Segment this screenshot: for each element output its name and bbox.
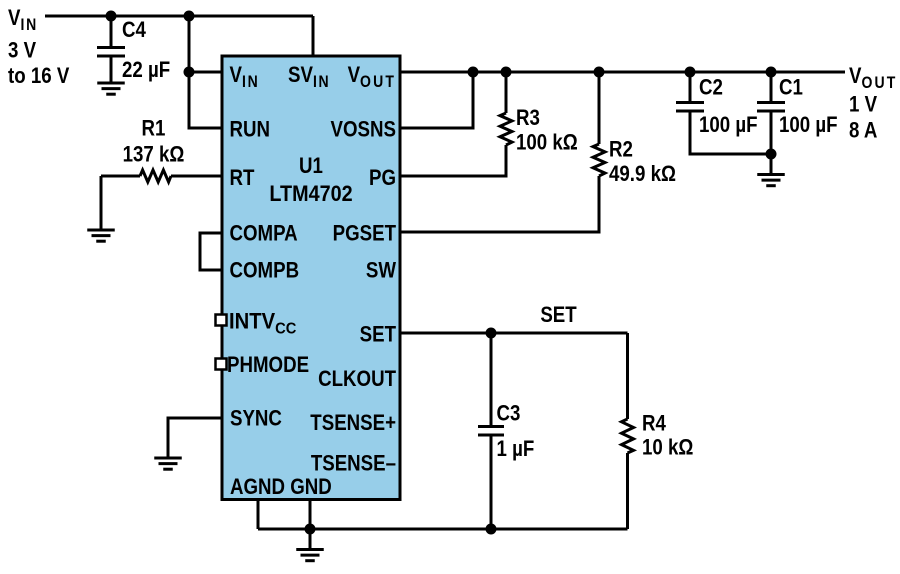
svg-text:R3: R3: [516, 107, 540, 131]
svg-text:SW: SW: [366, 259, 397, 283]
svg-text:10 kΩ: 10 kΩ: [642, 436, 693, 460]
wire: COMPA-COMPB loop: [200, 233, 222, 270]
resistor R4: [622, 333, 634, 529]
capacitor C4: [97, 16, 125, 83]
svg-text:COMPA: COMPA: [230, 222, 298, 246]
node: junction R2: [594, 67, 605, 78]
svg-text:100 µF: 100 µF: [699, 114, 758, 138]
svg-text:R1: R1: [142, 117, 166, 141]
svg-text:SET: SET: [540, 304, 577, 328]
resistor R1: [101, 170, 222, 182]
wire: GND drop: [309, 498, 312, 529]
svg-text:RT: RT: [230, 167, 255, 191]
svg-text:SYNC: SYNC: [230, 407, 282, 431]
svg-text:R2: R2: [609, 138, 633, 162]
wire: bottom ground rail: [258, 528, 628, 531]
svg-text:PGSET: PGSET: [333, 222, 397, 246]
svg-text:VIN: VIN: [8, 7, 38, 35]
svg-text:CLKOUT: CLKOUT: [318, 368, 396, 392]
node: junction R3: [501, 67, 512, 78]
capacitor C1: [757, 72, 785, 174]
svg-text:TSENSE+: TSENSE+: [310, 412, 396, 436]
svg-text:SET: SET: [360, 323, 397, 347]
resistor R2: [400, 72, 605, 232]
svg-text:22 µF: 22 µF: [122, 59, 170, 83]
wire: SET net: [400, 332, 628, 335]
wire: VOUT rail: [400, 71, 845, 74]
wire: VIN top rail: [45, 15, 313, 18]
node: junction C2: [685, 67, 696, 78]
wire: SVIN drop from top rail into IC top: [312, 16, 315, 56]
wire: GND stub to ground symbol: [309, 529, 312, 549]
svg-text:RUN: RUN: [230, 118, 271, 142]
wire: AGND drop: [257, 498, 260, 529]
node: junction SET/C3: [486, 328, 497, 339]
pin square PHMODE: [216, 359, 227, 370]
node: junction VIN feed: [184, 11, 195, 22]
ground under C4: [97, 83, 125, 94]
svg-text:to 16 V: to 16 V: [8, 65, 70, 89]
node: junction VIN/C4: [106, 11, 117, 22]
resistor R3: [400, 72, 512, 176]
wire: VOSNS sense: [400, 72, 473, 128]
IC U1 body: [222, 56, 400, 500]
svg-text:AGND GND: AGND GND: [230, 476, 332, 500]
svg-text:LTM4702: LTM4702: [269, 182, 352, 206]
ground under C1: [757, 175, 785, 186]
svg-text:3 V: 3 V: [8, 39, 36, 63]
node: junction VOSNS: [468, 67, 479, 78]
svg-text:1 V: 1 V: [849, 93, 877, 117]
capacitor C3: [478, 333, 504, 529]
node: junction at VIN pin: [184, 67, 195, 78]
wire: SYNC stub: [168, 418, 222, 458]
svg-text:COMPB: COMPB: [230, 259, 300, 283]
svg-text:49.9 kΩ: 49.9 kΩ: [609, 163, 676, 187]
ground under SYNC: [154, 458, 182, 469]
svg-text:C4: C4: [122, 19, 146, 43]
node: junction C1: [766, 67, 777, 78]
node: junction C1/C2 ground: [766, 149, 777, 160]
svg-text:VOSNS: VOSNS: [331, 118, 396, 142]
svg-text:PG: PG: [369, 167, 396, 191]
svg-text:8 A: 8 A: [849, 119, 878, 143]
ground under R1: [87, 230, 115, 241]
svg-text:100 kΩ: 100 kΩ: [516, 131, 578, 155]
svg-text:1 µF: 1 µF: [497, 438, 535, 462]
svg-text:TSENSE–: TSENSE–: [311, 452, 396, 476]
svg-text:C1: C1: [779, 76, 803, 100]
capacitor C2: [676, 72, 771, 154]
pin square INTVCC: [216, 315, 227, 326]
node: junction GND: [305, 524, 316, 535]
svg-text:C3: C3: [497, 402, 521, 426]
svg-text:U1: U1: [299, 155, 323, 179]
svg-text:C2: C2: [699, 76, 723, 100]
svg-text:PHMODE: PHMODE: [227, 354, 309, 378]
ground under IC: [296, 550, 324, 561]
svg-text:137 kΩ: 137 kΩ: [123, 143, 185, 167]
svg-text:VOUT: VOUT: [849, 65, 897, 93]
svg-text:100 µF: 100 µF: [779, 114, 838, 138]
wire: R1 to ground: [100, 176, 103, 230]
wire: VIN pin feed vertical: [189, 16, 222, 72]
wire: RUN pin feed: [189, 72, 222, 128]
node: junction C3 ground: [486, 524, 497, 535]
svg-text:R4: R4: [642, 412, 666, 436]
